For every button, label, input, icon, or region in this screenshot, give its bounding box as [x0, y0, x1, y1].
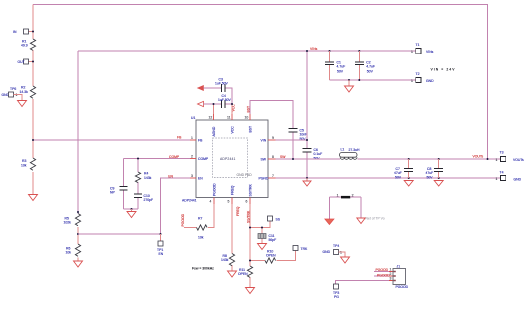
- wire C3: [204, 88, 233, 104]
- ground C7: [404, 181, 413, 187]
- svg-text:7: 7: [272, 174, 274, 178]
- ground net tie right (hollow): [357, 218, 365, 224]
- svg-text:Fsw = 300kHz: Fsw = 300kHz: [192, 266, 214, 270]
- svg-text:PGND: PGND: [259, 177, 269, 181]
- svg-text:EN: EN: [159, 252, 164, 256]
- wire EN divider drop from VIN rail: [77, 51, 79, 214]
- svg-text:56pF: 56pF: [269, 238, 277, 242]
- svg-text:VINs: VINs: [426, 50, 434, 54]
- wire BST to C5: [250, 101, 293, 160]
- svg-text:SS: SS: [276, 218, 281, 222]
- svg-text:10k: 10k: [198, 236, 204, 240]
- ground C11: [258, 244, 267, 250]
- svg-text:U1: U1: [191, 116, 195, 120]
- svg-text:OUT: OUT: [18, 60, 25, 64]
- capacitor C9: [110, 186, 128, 194]
- svg-text:SW: SW: [261, 158, 267, 162]
- svg-text:PGOOD: PGOOD: [377, 274, 390, 278]
- svg-text:50V: 50V: [367, 69, 374, 73]
- svg-text:2: 2: [352, 193, 354, 197]
- svg-text:COMP: COMP: [198, 157, 209, 161]
- test point TP3 PGOOD: [333, 284, 339, 299]
- capacitor C4: [218, 94, 232, 108]
- svg-text:PGOOD: PGOOD: [396, 285, 409, 289]
- svg-text:1: 1: [411, 79, 413, 83]
- terminal T1 VIN: [411, 43, 434, 54]
- resistor R1: [21, 39, 36, 50]
- svg-text:1uF 50V: 1uF 50V: [218, 98, 232, 102]
- test point OUT: [18, 59, 35, 64]
- svg-text:FREQ: FREQ: [236, 206, 240, 216]
- terminal T2 GND: [411, 72, 434, 83]
- test point SS: [268, 216, 281, 222]
- svg-text:VCC: VCC: [231, 126, 235, 134]
- svg-text:1: 1: [411, 50, 413, 54]
- pin 5 FREQ: [228, 185, 235, 204]
- pin 7 PGND: [259, 174, 276, 181]
- svg-text:VOUTs: VOUTs: [473, 155, 484, 159]
- ground PGND at C6: [303, 178, 311, 186]
- ground R3: [29, 195, 38, 201]
- capacitor C7: [394, 159, 413, 179]
- svg-text:T3: T3: [500, 151, 504, 155]
- svg-text:3: 3: [191, 174, 193, 178]
- svg-text:PGOOD: PGOOD: [376, 268, 389, 272]
- off-page arrow C3 (filled): [198, 85, 204, 90]
- ground R11: [246, 288, 255, 294]
- op-amp U1 ADP2441: [182, 116, 268, 202]
- terminal T4 GND: [496, 171, 522, 182]
- ground C8: [434, 181, 443, 187]
- svg-text:VOUTs: VOUTs: [513, 158, 524, 162]
- svg-text:PG: PG: [334, 295, 339, 299]
- svg-text:BST: BST: [249, 126, 253, 133]
- capacitor C2: [355, 51, 375, 80]
- svg-text:1uF 50V: 1uF 50V: [215, 82, 229, 86]
- wire VIN pin net: [276, 51, 308, 178]
- svg-text:TP6: TP6: [10, 87, 16, 91]
- wire VIN rail: [78, 50, 416, 52]
- wire FB to divider: [33, 139, 190, 141]
- svg-text:VIN = 24V: VIN = 24V: [431, 67, 456, 71]
- svg-text:AGND: AGND: [212, 126, 216, 136]
- pin 3 EN: [190, 174, 203, 181]
- resistor R4: [135, 172, 151, 183]
- capacitor C6: [303, 148, 323, 160]
- resistor R8: [221, 254, 235, 266]
- svg-text:14.3k: 14.3k: [20, 90, 29, 94]
- wire PGOOD to connector: [336, 272, 389, 285]
- resistor R3: [21, 158, 36, 170]
- svg-text:10k: 10k: [21, 163, 27, 167]
- pin 8 SW: [261, 155, 287, 162]
- svg-text:143k: 143k: [144, 176, 152, 180]
- svg-text:TRK: TRK: [301, 247, 309, 251]
- pin 10 BST: [245, 106, 253, 133]
- net tie AGND-PGND jumper: [329, 193, 361, 219]
- capacitor C1: [325, 51, 345, 80]
- svg-text:50V: 50V: [337, 69, 344, 73]
- svg-text:GND PAD: GND PAD: [237, 173, 253, 177]
- svg-text:102k: 102k: [64, 221, 72, 225]
- svg-text:FB: FB: [177, 136, 182, 140]
- pin 2 COMP: [190, 155, 209, 162]
- svg-text:T2: T2: [416, 72, 420, 76]
- capacitor C10: [134, 194, 153, 202]
- wire left VOUT rail segments: [32, 5, 34, 195]
- svg-text:49.9: 49.9: [21, 44, 28, 48]
- svg-text:OPEN: OPEN: [238, 272, 248, 276]
- svg-text:VIN: VIN: [261, 139, 267, 143]
- svg-text:2: 2: [191, 155, 193, 159]
- svg-text:50V: 50V: [314, 156, 321, 160]
- svg-text:L1: L1: [341, 148, 345, 152]
- svg-text:GND: GND: [514, 178, 522, 182]
- svg-text:SW: SW: [280, 155, 286, 159]
- capacitor C11: [258, 234, 276, 243]
- svg-text:4.7uF: 4.7uF: [366, 64, 375, 68]
- svg-text:4: 4: [210, 200, 212, 204]
- svg-text:EN: EN: [168, 175, 173, 179]
- wire PGOOD net: [184, 204, 214, 228]
- capacitor C3: [215, 78, 229, 93]
- svg-text:J1: J1: [397, 265, 401, 269]
- ground R6: [74, 261, 83, 267]
- wire PGND row: [276, 177, 501, 179]
- svg-text:Net of TP Vo: Net of TP Vo: [366, 217, 385, 221]
- svg-text:3: 3: [390, 277, 392, 281]
- wire C4 AGND VCC: [204, 103, 233, 105]
- test point TP6 GND: [2, 87, 23, 101]
- wire SS/TRK net: [250, 204, 296, 288]
- svg-text:FREQ: FREQ: [231, 185, 235, 195]
- pin 11 VCC: [227, 104, 235, 134]
- test point IN: [13, 29, 34, 34]
- svg-text:T4: T4: [500, 171, 504, 175]
- terminal T3 VOUT: [496, 151, 525, 163]
- wire SW net: [276, 158, 341, 160]
- svg-text:5: 5: [228, 200, 230, 204]
- wire EN net: [78, 178, 190, 234]
- resistor R5: [64, 211, 81, 226]
- svg-text:EN: EN: [198, 177, 203, 181]
- node EN divider tap: [77, 233, 79, 235]
- svg-text:T1: T1: [416, 43, 420, 47]
- svg-text:9: 9: [272, 136, 274, 140]
- test point TRK: [293, 246, 308, 252]
- ground TP4: [341, 257, 350, 263]
- svg-text:GND: GND: [426, 79, 434, 83]
- svg-text:12: 12: [209, 116, 213, 120]
- test point TP4 GND: [323, 244, 346, 257]
- wire input GND row: [330, 79, 416, 81]
- svg-text:IN: IN: [13, 30, 17, 34]
- node FB junction: [32, 139, 34, 141]
- svg-text:6: 6: [246, 200, 248, 204]
- svg-text:4.7uF: 4.7uF: [337, 64, 346, 68]
- svg-text:1: 1: [191, 136, 193, 140]
- off-page arrow C4 (hollow): [198, 101, 204, 106]
- ground input: [345, 80, 354, 92]
- ground comp network: [127, 209, 136, 218]
- svg-text:OPEN: OPEN: [266, 254, 276, 258]
- resistor R7: [197, 217, 208, 240]
- resistor R11: [238, 266, 253, 277]
- svg-text:TP4: TP4: [333, 244, 339, 248]
- svg-text:PGOOD: PGOOD: [181, 213, 185, 226]
- svg-text:270pF: 270pF: [144, 198, 154, 202]
- pin 6 SS/TRK: [246, 184, 253, 204]
- svg-text:FB: FB: [198, 139, 203, 143]
- svg-text:143k: 143k: [221, 258, 229, 262]
- capacitor C5: [289, 129, 308, 141]
- svg-text:10: 10: [245, 116, 249, 120]
- svg-text:NP: NP: [110, 191, 115, 195]
- svg-text:1: 1: [496, 158, 498, 162]
- svg-text:27.3uH: 27.3uH: [349, 148, 360, 152]
- connector J1 PGOOD: [389, 265, 409, 289]
- svg-text:SS/TRK: SS/TRK: [247, 210, 251, 223]
- wire R5 to R6: [77, 227, 79, 244]
- svg-text:GND: GND: [323, 250, 331, 254]
- resistor R6: [66, 244, 81, 261]
- wire VOUT row: [358, 158, 501, 160]
- wire FREQ net: [231, 204, 233, 271]
- resistor R2: [20, 86, 36, 99]
- ground R8: [228, 271, 237, 277]
- resistor R10: [265, 250, 276, 264]
- wire VOUT sense top rail: [33, 5, 488, 160]
- svg-text:COMP: COMP: [169, 155, 180, 159]
- svg-text:ADP2441: ADP2441: [220, 157, 236, 161]
- svg-text:50V: 50V: [427, 175, 434, 179]
- svg-text:VINs: VINs: [310, 47, 318, 51]
- svg-text:8: 8: [272, 155, 274, 159]
- svg-text:11: 11: [227, 116, 231, 120]
- svg-text:10k: 10k: [66, 251, 72, 255]
- pin 1 FB: [177, 136, 203, 143]
- svg-text:1: 1: [16, 93, 18, 97]
- svg-text:2: 2: [390, 272, 392, 276]
- wire COMP net: [124, 159, 191, 210]
- pin 12 AGND: [209, 114, 217, 137]
- svg-text:R7: R7: [198, 217, 202, 221]
- svg-text:ADP2441: ADP2441: [182, 198, 197, 202]
- svg-text:1: 1: [337, 193, 339, 197]
- svg-text:50V: 50V: [395, 175, 402, 179]
- pin 9 VIN: [261, 136, 276, 143]
- svg-text:SS/TRK: SS/TRK: [249, 184, 253, 197]
- svg-text:R3: R3: [22, 159, 26, 163]
- inductor L1: [340, 148, 360, 160]
- ground TP6: [18, 101, 27, 107]
- ground net tie left (filled): [325, 219, 334, 225]
- capacitor C8: [426, 159, 444, 179]
- svg-text:PGOOD: PGOOD: [213, 183, 217, 196]
- test point TP1 EN: [157, 234, 164, 256]
- pin 4 PGOOD: [210, 183, 217, 204]
- svg-text:1: 1: [390, 268, 392, 272]
- svg-text:1: 1: [496, 177, 498, 181]
